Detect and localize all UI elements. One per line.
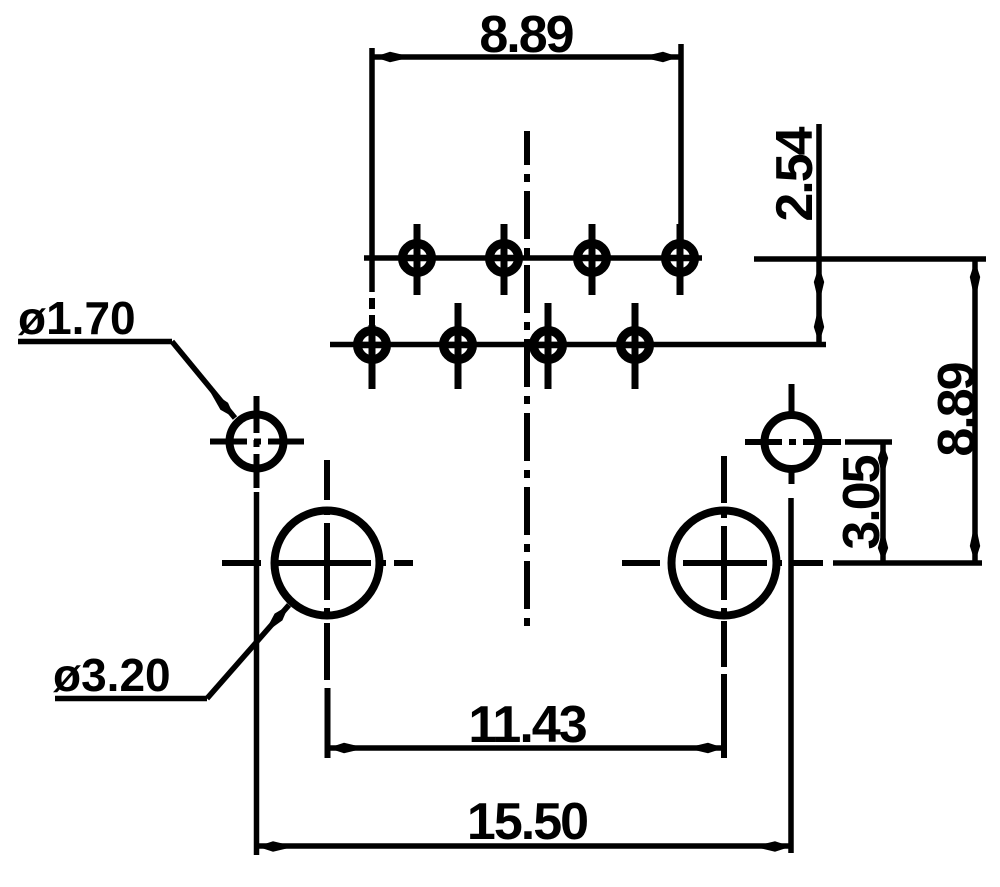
label diameter 1.70: leader underline: [18, 339, 172, 345]
dimension 11.43 bottom: text: [468, 696, 586, 754]
pin row top: horizontal line: [364, 255, 702, 261]
svg-text:ø1.70: ø1.70: [18, 292, 136, 344]
dimension 8.89 right: bottom extension line: [833, 560, 982, 566]
label diameter 3.20: leader diagonal: [207, 605, 289, 699]
label diameter 3.20: leader underline: [55, 696, 207, 702]
dimension 11.43: left arrowhead: [328, 743, 366, 753]
small hole right: extension line down to 15.50: [788, 498, 794, 853]
pin hole 3 top row: [576, 224, 608, 295]
dimension 8.89 right: text (rotated): [928, 363, 986, 456]
dimension 11.43: right arrowhead: [686, 743, 724, 753]
dimension 8.89 top: left extension line: [369, 48, 375, 326]
svg-text:2.54: 2.54: [766, 126, 824, 221]
dimension 2.54 right: text (rotated): [766, 126, 824, 221]
dimension 3.05 right: text (rotated): [833, 455, 891, 549]
pin row bottom: horizontal line: [330, 342, 826, 348]
dimension 8.89 right: dimension line: [972, 260, 978, 563]
small hole left: crosshair: [210, 396, 304, 488]
svg-text:ø3.20: ø3.20: [53, 649, 171, 701]
dimension 8.89 top: text: [479, 6, 572, 64]
pin hole 1 top row: [401, 224, 433, 295]
pin hole 5 bottom row: [356, 325, 388, 389]
dimension 8.89 right: up arrowhead: [970, 261, 980, 301]
dimension 8.89 top: dimension line: [374, 54, 679, 60]
big hole right: horizontal center line: [622, 560, 823, 566]
big hole (diameter 3.20) left: circle: [275, 511, 380, 616]
label diameter 3.20: leader arrowhead: [264, 605, 289, 634]
center line (vertical dash-dot): [524, 131, 530, 627]
dimension 15.50: dimension line: [257, 843, 791, 849]
dimension 2.54: dimension line: [816, 124, 822, 344]
dimension 3.05: dimension line: [880, 443, 886, 562]
dimension 2.54: top extension line: [754, 256, 986, 262]
pin hole 8 bottom row: [619, 303, 651, 389]
dimension 8.89 top: right extension line: [678, 44, 684, 240]
dimension 3.05: top tick extension: [845, 439, 892, 445]
pin hole 6 bottom row: [442, 303, 474, 389]
big hole right: vertical center line: [721, 456, 727, 758]
dimension 8.89 top: right arrowhead: [641, 52, 679, 62]
dimension 15.50: right arrowhead: [753, 841, 791, 851]
pin hole 4 top row: [664, 224, 696, 295]
label diameter 1.70: leader diagonal: [172, 342, 235, 419]
small hole right: crosshair: [745, 384, 841, 484]
small hole (diameter 1.70) left: circle: [230, 415, 284, 469]
label diameter 3.20: text: [53, 649, 171, 701]
dimension 15.50 bottom: text: [467, 793, 587, 851]
dimension 3.05: down arrowhead: [878, 528, 888, 562]
label diameter 1.70: leader arrowhead: [209, 390, 235, 418]
small hole (diameter 1.70) right: circle: [765, 415, 819, 469]
dimension 11.43: dimension line: [328, 745, 724, 751]
label diameter 1.70: text: [18, 292, 136, 344]
svg-text:15.50: 15.50: [467, 793, 587, 851]
pin hole 7 bottom row: [532, 303, 564, 389]
big hole left: vertical center line: [324, 460, 331, 758]
small hole left: extension line down to 15.50: [254, 492, 260, 855]
pin hole 2 top row: [488, 224, 520, 295]
dimension 2.54: down arrowhead: [814, 305, 824, 343]
dimension 8.89 top: left arrowhead: [374, 52, 412, 62]
big hole left: horizontal center line: [222, 560, 413, 566]
big hole (diameter 3.20) right: circle: [672, 511, 777, 616]
dimension 2.54: up arrowhead: [814, 266, 824, 304]
dimension 3.05: up arrowhead: [878, 444, 888, 478]
dimension 15.50: left arrowhead: [257, 841, 295, 851]
dimension 8.89 right: down arrowhead: [970, 522, 980, 562]
